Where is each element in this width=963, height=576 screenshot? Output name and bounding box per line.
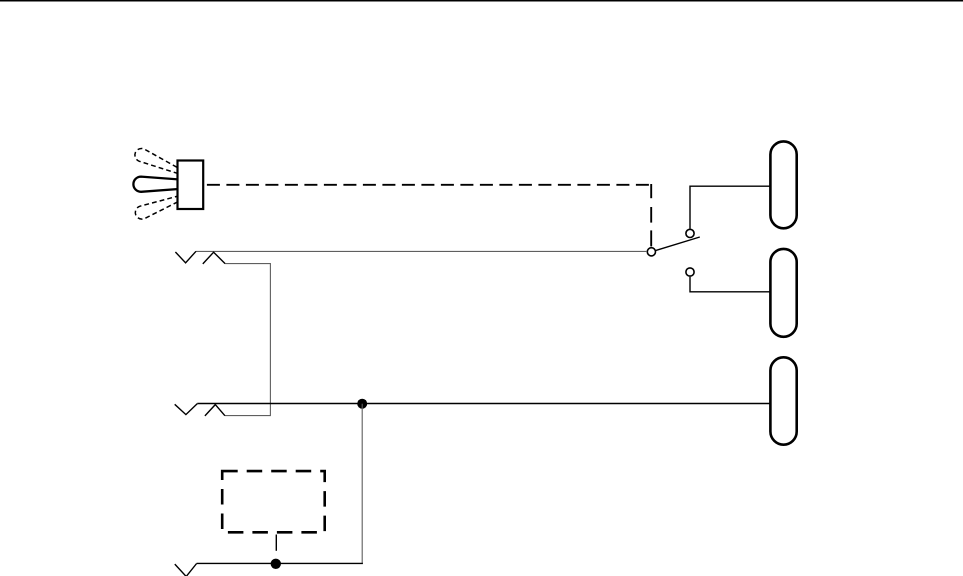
dashed link vertical drop, dash 3 [650, 230, 652, 246]
wire (gray): loop from break 1 stub down to break 2 stub [225, 264, 271, 416]
wire: upper throw to connector B1 [690, 186, 770, 229]
toggle lever (solid bat handle) [133, 177, 178, 192]
connector pill B1 [770, 141, 796, 228]
toggle lever ghost position up (dashed) [135, 148, 178, 173]
toggle switch body [178, 161, 204, 210]
bottom wire [197, 562, 363, 564]
dashed accessory box [222, 471, 325, 532]
wire (gray): junction down to bottom wire [361, 404, 363, 564]
switch pole contact circle [647, 248, 655, 256]
accessory box lead stub [275, 535, 277, 551]
switch upper throw contact circle [686, 229, 694, 237]
dashed mechanical link wire (vertical drop to pole, dash 1) [650, 184, 652, 198]
connector pill B2 [770, 249, 796, 337]
break 1 chevron V [175, 251, 196, 262]
connector pill B3 [770, 357, 796, 444]
dashed mechanical link wire (horizontal run) [205, 184, 652, 186]
page top border [0, 0, 963, 2]
junction dot on bottom wire [271, 559, 281, 569]
break 1 chevron caret [203, 252, 225, 264]
dashed link vertical drop, dash 2 [650, 207, 652, 223]
junction dot on main wire [357, 399, 367, 409]
main wire: break 2 to connector B3 [197, 403, 770, 405]
wire: lower throw to connector B2 [690, 277, 770, 292]
break 2 chevron V [175, 404, 198, 415]
switch lower throw contact circle [686, 268, 694, 276]
toggle lever ghost position down (dashed) [135, 196, 178, 219]
wire (gray): break 1 to switch pole [196, 250, 647, 252]
break 2 chevron caret [205, 405, 225, 416]
switch blade (pole toward upper throw) [656, 237, 700, 250]
break 3 chevron V [175, 564, 197, 576]
